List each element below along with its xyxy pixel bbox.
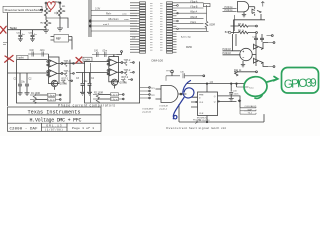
svg-text:1.0p m: 1.0p m: [111, 99, 118, 101]
svg-text:+2SVdd: +2SVdd: [119, 82, 128, 84]
svg-text:LVDS-M: LVDS-M: [160, 106, 168, 108]
svg-text:SDP: SDP: [248, 109, 253, 111]
svg-text:CLK: CLK: [199, 102, 204, 104]
svg-text:1 R: 1 R: [210, 82, 214, 84]
svg-text:pw-dr-1: pw-dr-1: [160, 108, 168, 111]
svg-text:Ref+: Ref+: [106, 13, 112, 16]
svg-text:LVDS-MGT: LVDS-MGT: [143, 109, 155, 111]
svg-text:H.Voltage DMC + PFC: H.Voltage DMC + PFC: [30, 117, 82, 123]
svg-text:TOP-1: TOP-1: [64, 71, 71, 73]
svg-text:R8 1k: R8 1k: [238, 31, 245, 33]
svg-text:Q: Q: [214, 96, 216, 98]
svg-text:.02m: .02m: [40, 50, 45, 52]
svg-text:M250: M250: [186, 46, 193, 49]
svg-text:DRL.13: DRL.13: [47, 124, 62, 127]
svg-text:3.3Vdd: 3.3Vdd: [53, 1, 61, 4]
svg-text:I-Bo-Sum: I-Bo-Sum: [108, 18, 119, 21]
svg-text:Texas Instruments: Texas Instruments: [28, 109, 81, 115]
svg-text:TZ-1: TZ-1: [248, 113, 253, 115]
svg-text:1.0p m: 1.0p m: [48, 95, 55, 97]
svg-text:820R: 820R: [210, 24, 216, 26]
svg-text:CLR: CLR: [199, 113, 204, 115]
svg-text:GPIO39: GPIO39: [283, 75, 317, 91]
svg-text:R7 1k: R7 1k: [238, 24, 245, 26]
svg-text:PUR-18: PUR-18: [223, 53, 232, 55]
svg-text:+2SVdd: +2SVdd: [59, 84, 68, 86]
svg-text:R1 100R: R1 100R: [31, 93, 40, 95]
svg-text:C41: C41: [94, 50, 99, 52]
svg-text:1.0p m: 1.0p m: [111, 94, 118, 96]
svg-text:.02m: .02m: [102, 50, 107, 52]
svg-text:REF: REF: [56, 38, 61, 41]
svg-text:A-Drv-Top: A-Drv-Top: [181, 35, 192, 38]
svg-text:conn: conn: [122, 14, 128, 16]
svg-text:C2000 - DAF: C2000 - DAF: [10, 127, 39, 131]
svg-text:I-Sum: I-Sum: [190, 22, 196, 24]
svg-text:I-Bot-B: I-Bot-B: [190, 16, 198, 19]
svg-text:PUL-10k: PUL-10k: [193, 120, 202, 122]
svg-text:pw-dr-01: pw-dr-01: [143, 110, 152, 113]
svg-text:I-Top-A: I-Top-A: [190, 0, 198, 3]
svg-text:mod 2: mod 2: [103, 24, 110, 26]
svg-text:TOP-1: TOP-1: [64, 61, 71, 63]
svg-text:TZ-1: TZ-1: [249, 87, 254, 89]
svg-text:Q: Q: [214, 101, 216, 103]
svg-text:Topfet: Topfet: [10, 26, 17, 30]
svg-text:BOT-2: BOT-2: [122, 77, 129, 79]
svg-text:1.0p m: 1.0p m: [48, 99, 55, 101]
svg-text:PUR-1k: PUR-1k: [225, 7, 234, 9]
svg-text:Page 1 of 1: Page 1 of 1: [72, 126, 94, 130]
svg-text:DIM-100: DIM-100: [152, 59, 164, 63]
svg-text:PRE: PRE: [199, 94, 204, 96]
svg-text:BOT-1: BOT-1: [62, 78, 69, 80]
svg-text:Inpfet: Inpfet: [18, 57, 25, 60]
svg-text:(1/07/08): (1/07/08): [45, 127, 63, 131]
svg-text:CLR-FAULT: CLR-FAULT: [245, 105, 257, 108]
svg-text:PUR-1k: PUR-1k: [225, 10, 234, 12]
svg-text:I-Top-B: I-Top-B: [190, 7, 198, 9]
svg-text:C40: C40: [30, 50, 35, 52]
svg-text:TOP-2: TOP-2: [124, 60, 131, 62]
svg-text:R2 100R: R2 100R: [94, 92, 103, 94]
svg-text:Inpfet: Inpfet: [84, 58, 91, 61]
svg-text:I-Bot-A: I-Bot-A: [190, 11, 198, 14]
svg-text:Overcurrent fault signal latch: Overcurrent fault signal latch ckt: [166, 126, 226, 130]
svg-text:R41 1k: R41 1k: [234, 70, 242, 72]
svg-text:conn: conn: [124, 19, 130, 21]
svg-text:Overcurrent threshold: Overcurrent threshold: [5, 8, 41, 12]
svg-text:TOP-2: TOP-2: [124, 70, 131, 72]
svg-text:PUR-18: PUR-18: [223, 49, 232, 51]
svg-text:3.3V: 3.3V: [95, 8, 100, 11]
